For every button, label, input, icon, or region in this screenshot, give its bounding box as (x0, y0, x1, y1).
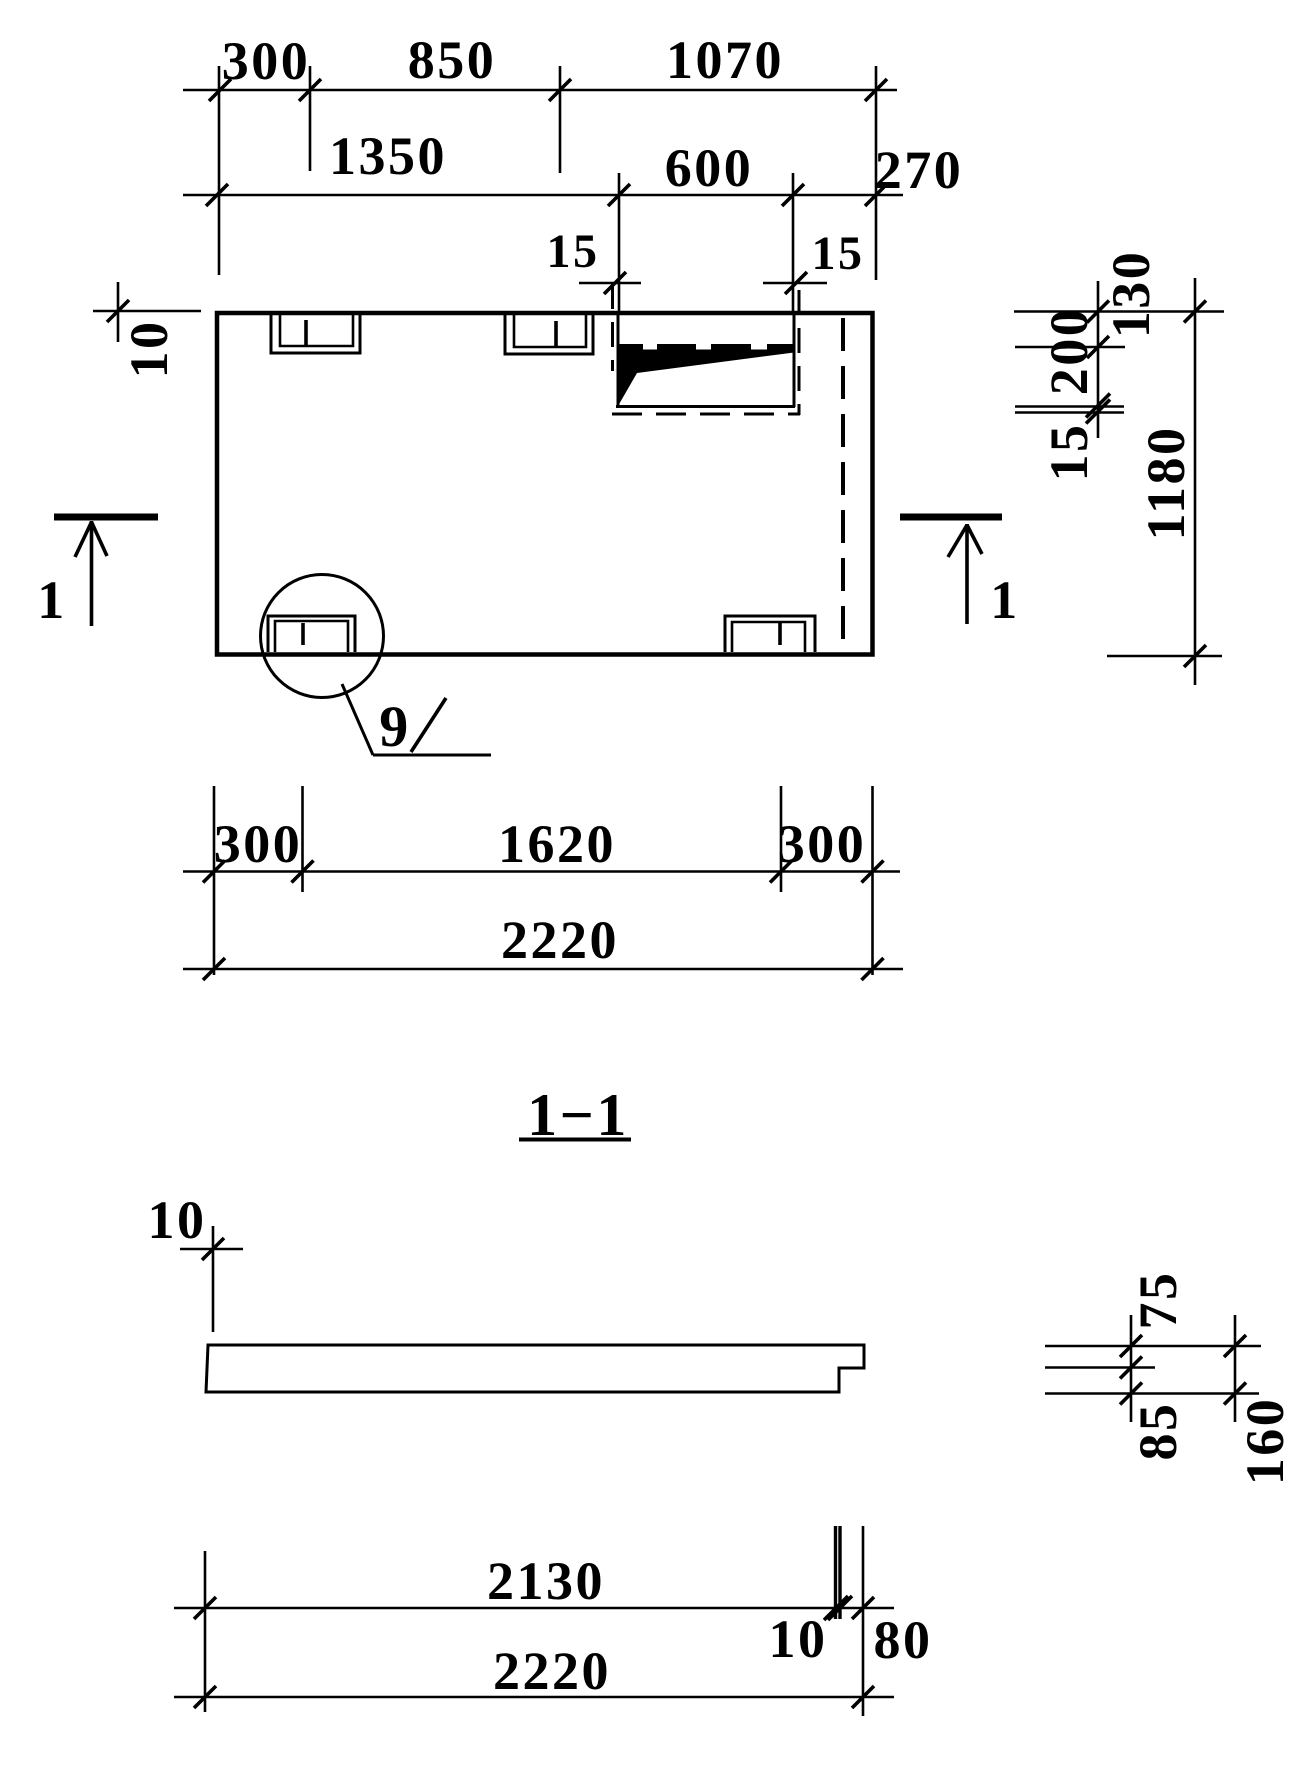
extension line x=872.5 (871, 786, 874, 975)
recess left edge (617, 313, 620, 407)
tick (770, 861, 792, 883)
dimension line x=1195 (1194, 278, 1197, 685)
tick (1224, 1335, 1246, 1357)
tick (1184, 301, 1206, 323)
svg-text:200: 200 (1039, 307, 1099, 396)
notch outer (725, 616, 815, 652)
extension line y=656 bottom (1107, 655, 1222, 658)
tick (1120, 1383, 1142, 1405)
svg-text:15: 15 (1039, 423, 1099, 482)
svg-text:300: 300 (214, 814, 303, 874)
wedge dash gap (643, 342, 657, 350)
tick (299, 79, 321, 101)
tick (194, 1597, 216, 1619)
section arrow stem (90, 521, 94, 626)
notch inner (275, 621, 348, 652)
tick (782, 184, 804, 206)
dimension line 300|1620|300 y=871.5 (183, 870, 900, 873)
recess bottom edge (616, 405, 795, 408)
extension line y=311.5 (1014, 310, 1224, 313)
tick (852, 1686, 874, 1708)
svg-text:10: 10 (119, 320, 179, 379)
svg-text:85: 85 (1128, 1402, 1188, 1461)
notch inner (732, 622, 805, 652)
hidden dashed line x=799 (798, 290, 801, 415)
section profile (206, 1345, 864, 1392)
svg-text:300: 300 (222, 31, 311, 91)
extension line y=406.5 (1015, 405, 1124, 408)
extension line y=347 (1015, 346, 1125, 349)
notch center mark (554, 321, 558, 347)
arrow head stroke (948, 525, 967, 557)
extension line x=781 (780, 786, 783, 892)
svg-text:15: 15 (547, 225, 600, 278)
dimension line x=118 vertical (117, 282, 120, 342)
leader line (342, 684, 373, 755)
section bar right (900, 514, 1002, 521)
extension line y=1346 (1045, 1345, 1261, 1348)
tick (549, 79, 571, 101)
tick (862, 958, 884, 980)
svg-text:10: 10 (769, 1609, 828, 1669)
tick (604, 272, 626, 294)
svg-text:270: 270 (875, 140, 964, 200)
svg-text:80: 80 (874, 1610, 933, 1670)
tick (1087, 336, 1109, 358)
dim line y=1249 (180, 1248, 243, 1251)
tick (1087, 301, 1109, 323)
tick (203, 861, 225, 883)
tick (1120, 1357, 1142, 1379)
extension line y=311 left of plan (93, 310, 201, 313)
svg-text:1620: 1620 (498, 814, 616, 874)
extension line x=793 (recess right) (792, 173, 795, 312)
notch center mark (778, 623, 782, 645)
svg-text:600: 600 (665, 138, 754, 198)
extension line x=214 (213, 786, 216, 975)
svg-text:2220: 2220 (493, 1641, 611, 1701)
leader slash (411, 698, 446, 752)
tick (194, 1686, 216, 1708)
svg-text:850: 850 (408, 30, 497, 90)
recess right edge (793, 313, 796, 407)
tick (1184, 645, 1206, 667)
slope wedge filled (618, 344, 794, 406)
notch inner (514, 313, 586, 347)
tick (865, 79, 887, 101)
svg-text:300: 300 (778, 814, 867, 874)
dimension line x=213 (212, 1226, 215, 1332)
svg-text:75: 75 (1128, 1271, 1188, 1330)
tick (292, 861, 314, 883)
svg-text:1180: 1180 (1136, 425, 1196, 540)
tick (785, 272, 807, 294)
extension line x=560 (850/1070 boundary) (559, 66, 562, 173)
svg-text:9: 9 (379, 694, 411, 759)
wedge dash gap (696, 342, 711, 350)
tick (203, 958, 225, 980)
tick (209, 79, 231, 101)
notch outer (505, 313, 593, 354)
tick (608, 184, 630, 206)
tick (862, 861, 884, 883)
dimension line x=1235 (1234, 1315, 1237, 1422)
tick (852, 1597, 874, 1619)
extension line x=876 (right edge) (875, 66, 878, 280)
svg-text:1: 1 (37, 570, 67, 630)
arrow head stroke (92, 522, 108, 556)
extension line x=310 (300/850 boundary) (309, 66, 312, 171)
extension line x=840 (838, 1526, 841, 1619)
notch center mark (304, 320, 308, 346)
dimension line 2220 y=1697 (174, 1696, 894, 1699)
notch inner (280, 313, 353, 346)
section bar left (54, 514, 158, 521)
tick (202, 1238, 224, 1260)
extension line x=863 (862, 1526, 865, 1716)
extension line y=412.5 (1015, 411, 1124, 414)
title underline (519, 1138, 631, 1142)
dim line 15 left (579, 282, 641, 285)
dimension line 2130 y=1608 (174, 1607, 894, 1610)
extension line y=1393.5 (1045, 1392, 1259, 1395)
dimension line 2220 y=969 (183, 968, 903, 971)
svg-text:10: 10 (148, 1190, 207, 1250)
notch outer (271, 313, 360, 353)
svg-text:130: 130 (1101, 250, 1161, 339)
svg-text:2130: 2130 (487, 1551, 605, 1611)
hidden dashed line below recess y=414 (612, 413, 800, 416)
tick (1120, 1335, 1142, 1357)
tick (865, 184, 887, 206)
tick (206, 184, 228, 206)
svg-text:1: 1 (990, 570, 1020, 630)
dimension line x=1131 (1130, 1315, 1133, 1422)
hidden dashed line x=843 (841, 318, 845, 652)
svg-text:15: 15 (812, 227, 865, 280)
arrow head stroke (75, 522, 92, 557)
svg-text:2220: 2220 (501, 910, 619, 970)
extension line x=302.5 (301, 786, 304, 892)
tick (107, 300, 129, 322)
detail circle (261, 575, 384, 698)
section arrow stem (965, 524, 969, 624)
notch center mark (301, 623, 305, 645)
dimension line x=1098 (1097, 281, 1100, 438)
svg-text:1070: 1070 (666, 30, 784, 90)
dimension line 1350|600|270 (183, 194, 903, 197)
plan slab outline (217, 313, 873, 655)
arrow head stroke (967, 525, 982, 554)
extension line x=619 (recess left) (618, 173, 621, 312)
extension line x=219 (left edge) (218, 66, 221, 275)
extension line x=836 (834, 1526, 837, 1619)
dim line 15 right (763, 282, 827, 285)
tick (1224, 1383, 1246, 1405)
svg-text:1350: 1350 (329, 126, 447, 186)
notch outer (268, 616, 355, 652)
extension line y=1367.5 (1045, 1366, 1155, 1369)
wedge dash gap (751, 342, 767, 350)
tick fat (824, 1596, 848, 1620)
leader underline (373, 754, 491, 757)
hidden dashed line x=612.5 (611, 284, 614, 371)
dimension line 300|850|1070 (183, 89, 897, 92)
tick fat (1086, 394, 1110, 418)
extension line x=205 (204, 1551, 207, 1712)
svg-text:160: 160 (1235, 1397, 1295, 1486)
